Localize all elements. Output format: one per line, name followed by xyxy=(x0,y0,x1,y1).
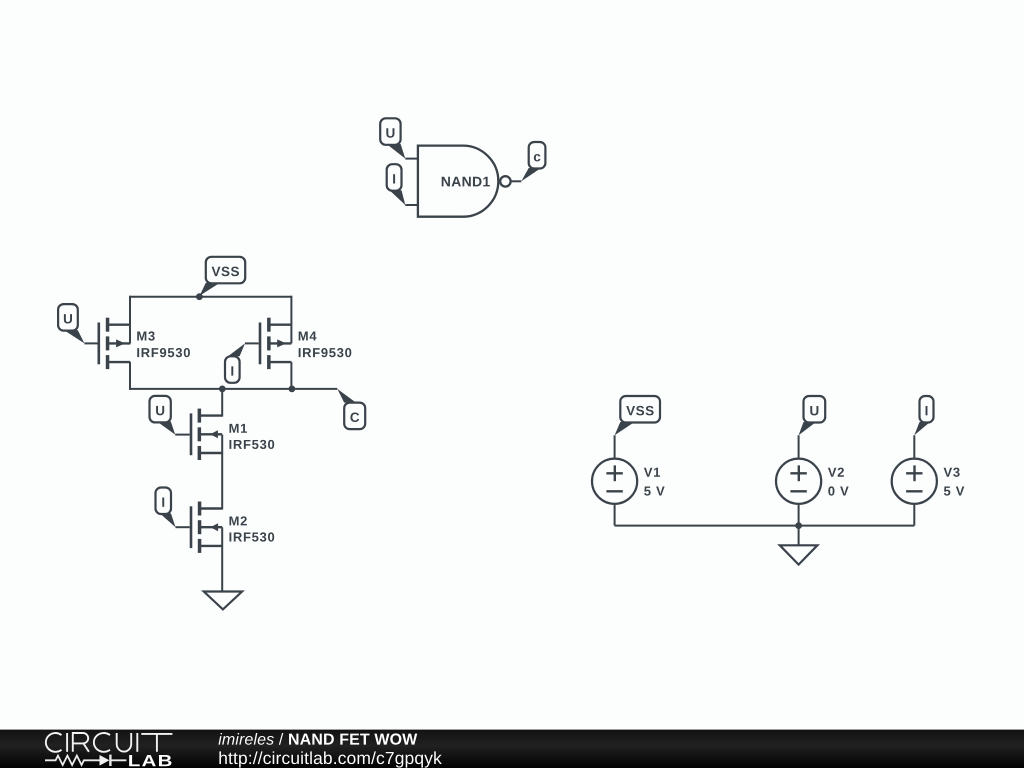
flag VSS (V1 plus) xyxy=(615,396,660,435)
wire V3 bottom xyxy=(913,504,915,526)
transistor M1 IRF530 (NMOS) xyxy=(191,409,222,460)
footer bar xyxy=(0,730,1024,768)
voltage source V2 0V xyxy=(776,459,821,504)
footer url xyxy=(219,751,441,767)
node junction dot M4 drain / output node xyxy=(289,386,296,393)
transistor M3 IRF9530 (PMOS) xyxy=(99,318,131,369)
wire M2 source to ground xyxy=(221,527,223,591)
flag VSS (top rail) xyxy=(200,257,246,296)
flag I (M4 gate) xyxy=(225,343,245,382)
label V1 5 V xyxy=(644,468,665,496)
node junction dot on ground bus xyxy=(795,522,802,529)
wire M3 gate xyxy=(84,342,97,344)
flag U (V2 plus) xyxy=(799,396,826,435)
CircuitLab logo: CIRCUIT wordmark xyxy=(46,733,173,752)
transistor M4 IRF9530 (PMOS) xyxy=(260,318,291,369)
flag C (output node) xyxy=(337,389,365,429)
wire ground bus xyxy=(615,525,915,527)
flag U (M3 gate) xyxy=(58,304,84,343)
CircuitLab logo: resistor zigzag and diode xyxy=(45,755,126,766)
wire V1 top xyxy=(614,435,616,459)
wire right rail (lower) xyxy=(290,362,292,390)
wire M2 gate xyxy=(176,526,190,528)
wire V3 top xyxy=(913,435,915,459)
wire output rail (bottom) xyxy=(129,388,337,390)
transistor M2 IRF530 (NMOS) xyxy=(191,502,222,553)
label V2 0 V xyxy=(828,468,849,496)
wire NAND1 output xyxy=(510,180,521,182)
voltage source V3 5V xyxy=(892,459,937,504)
node junction dot VSS on top rail xyxy=(196,293,203,300)
wire NAND1 input A xyxy=(405,158,419,160)
flag U (M1 gate) xyxy=(150,396,176,435)
wire ground stub xyxy=(798,526,800,546)
voltage source V1 5V xyxy=(592,459,637,504)
flag I (M2 gate) xyxy=(156,488,176,528)
label M1 IRF530 xyxy=(229,424,274,449)
wire left rail (lower) xyxy=(129,362,131,390)
wire NAND1 input B xyxy=(405,204,419,206)
wire M4 gate xyxy=(245,342,259,344)
flag I (V3 plus) xyxy=(914,396,933,435)
flag U (NAND1 input A) xyxy=(380,118,405,158)
label M4 IRF9530 xyxy=(299,332,352,358)
flag c (NAND1 output) xyxy=(521,142,545,181)
ground (sources) xyxy=(780,545,818,564)
label M2 IRF530 xyxy=(229,516,274,541)
wire right rail (upper) xyxy=(290,296,292,344)
wire M1 source to M2 drain xyxy=(221,435,223,510)
node junction dot M1 drain xyxy=(219,386,226,393)
label V3 5 V xyxy=(944,468,965,496)
ground (left circuit) xyxy=(204,592,242,610)
wire top rail xyxy=(130,296,291,298)
wire left rail (upper) xyxy=(129,296,131,344)
flag I (NAND1 input B) xyxy=(387,164,406,205)
CircuitLab logo: LAB xyxy=(129,755,171,766)
label M3 IRF9530 xyxy=(137,331,190,357)
wire M1 gate xyxy=(175,434,190,436)
NAND gate NAND1 xyxy=(418,146,511,217)
wire V1 bottom xyxy=(614,504,616,526)
wire V2 top xyxy=(798,435,800,459)
footer title: imireles / NAND FET WOW xyxy=(218,733,417,745)
wire M1 drain xyxy=(221,389,223,417)
wire V2 bottom xyxy=(798,504,800,526)
